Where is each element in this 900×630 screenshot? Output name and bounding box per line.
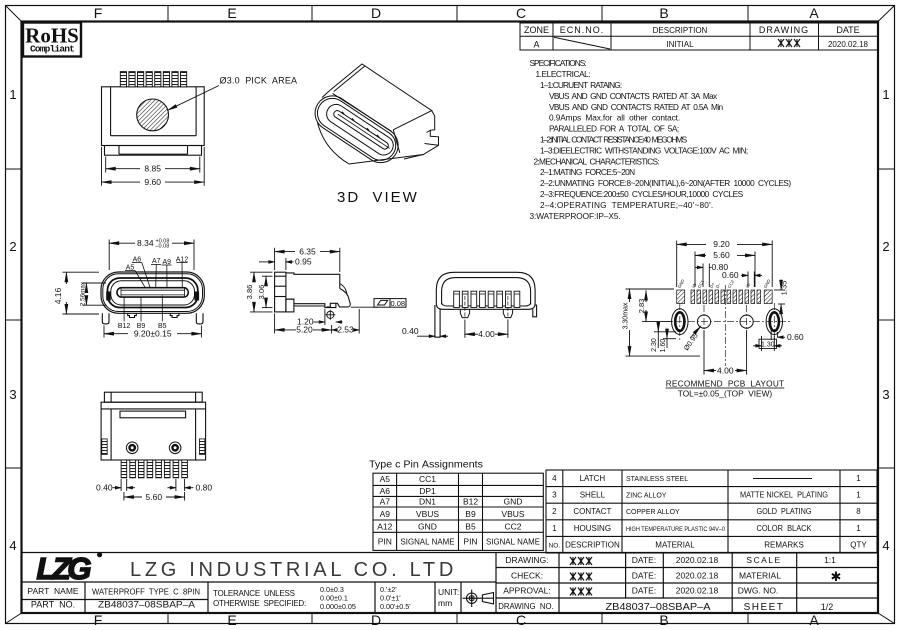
svg-text:A9: A9 — [380, 509, 391, 519]
zone tick marks left — [6, 169, 22, 468]
svg-text:D: D — [371, 5, 381, 21]
svg-text:QTY: QTY — [850, 540, 867, 549]
3d right face — [404, 111, 439, 159]
svg-text:ZINC ALLOY: ZINC ALLOY — [626, 493, 667, 500]
svg-text:HOUSING: HOUSING — [574, 524, 611, 533]
svg-text:3: 3 — [552, 491, 557, 500]
dim 4.00 back — [465, 320, 508, 338]
svg-text:2–2:UNMATING FORCE:8~20N(INIT: 2–2:UNMATING FORCE:8~20N(INITIAL),6~20N(… — [540, 178, 791, 188]
right block rows — [496, 567, 878, 569]
svg-text:8.34: 8.34 — [137, 238, 154, 248]
svg-text:CC1: CC1 — [419, 474, 436, 484]
position symbol — [325, 310, 335, 320]
svg-text:CHECK:: CHECK: — [511, 571, 543, 581]
svg-text:0.00'±0.5': 0.00'±0.5' — [380, 602, 411, 611]
svg-text:COPPER ALLOY: COPPER ALLOY — [626, 509, 680, 516]
svg-text:RECOMMEND PCB LAYOUT: RECOMMEND PCB LAYOUT — [666, 379, 785, 389]
specifications text — [530, 58, 792, 221]
svg-text:Compliant: Compliant — [30, 44, 74, 55]
svg-text:4.00: 4.00 — [478, 329, 495, 339]
svg-text:INITIAL: INITIAL — [666, 40, 694, 49]
side smt lead — [294, 303, 336, 307]
svg-text:1: 1 — [882, 87, 889, 102]
svg-text:1.60: 1.60 — [660, 339, 667, 353]
dim 4.00 pcb — [704, 330, 747, 375]
svg-text:DP1: DP1 — [419, 486, 436, 496]
front legs — [102, 313, 203, 324]
svg-text:DRAWING: DRAWING — [759, 25, 809, 35]
svg-text:5.20: 5.20 — [296, 325, 313, 335]
top view pins — [120, 72, 186, 87]
svg-text:–0.08: –0.08 — [156, 244, 170, 250]
svg-text:CC1: CC1 — [697, 279, 706, 289]
svg-text:2: 2 — [882, 239, 889, 254]
svg-text:A: A — [533, 40, 539, 50]
bottom view pins — [121, 460, 187, 478]
third angle projection symbol — [463, 590, 495, 608]
svg-text:E: E — [227, 612, 236, 628]
bottom view screw bosses — [126, 442, 181, 454]
3d body bottom edge — [349, 155, 423, 165]
dim 3.30max pcb — [626, 289, 701, 356]
svg-text:A5: A5 — [380, 474, 391, 484]
svg-text:2020.02.18: 2020.02.18 — [676, 571, 719, 581]
svg-text:DRAWING NO.: DRAWING NO. — [498, 602, 554, 611]
title block outline — [22, 553, 879, 614]
3d bottom skirt — [318, 123, 350, 165]
svg-text:NO.: NO. — [549, 542, 561, 549]
svg-text:Ø0.95: Ø0.95 — [683, 332, 700, 352]
svg-text:2020.02.18: 2020.02.18 — [676, 555, 719, 565]
svg-text:DATE:: DATE: — [632, 555, 656, 565]
svg-text:3.30max: 3.30max — [622, 302, 629, 329]
svg-text:ZB48037–08SBAP–A: ZB48037–08SBAP–A — [98, 600, 195, 610]
pin callouts bottom — [118, 323, 167, 330]
svg-text:D–: D– — [715, 281, 722, 289]
svg-text:2.83: 2.83 — [637, 299, 646, 314]
svg-text:1: 1 — [856, 491, 861, 500]
svg-text:DATE:: DATE: — [632, 571, 656, 581]
flatness datum box — [374, 299, 406, 308]
pick area leader — [168, 86, 220, 111]
svg-text:A12: A12 — [377, 521, 392, 531]
bottom view body — [101, 402, 206, 460]
svg-text:GND: GND — [763, 278, 772, 289]
dim phi0.95 pcb — [690, 326, 701, 338]
svg-text:GND: GND — [418, 521, 437, 531]
svg-text:PIN: PIN — [463, 537, 477, 547]
pick area circle — [137, 99, 169, 131]
svg-text:GOLD PLATING: GOLD PLATING — [757, 506, 812, 516]
revision table — [520, 23, 878, 50]
svg-text:OTHERWISE SPECIFIED:: OTHERWISE SPECIFIED: — [213, 599, 306, 608]
svg-text:LZG: LZG — [37, 551, 92, 586]
side shell front — [275, 272, 286, 312]
svg-text:3.86: 3.86 — [245, 285, 254, 300]
svg-text:4.16: 4.16 — [53, 287, 63, 304]
dim 2.30 1.60 pcb — [654, 323, 676, 349]
dim 4.16 — [63, 272, 100, 314]
svg-text:1–1:CURUENT RATAING:: 1–1:CURUENT RATAING: — [540, 80, 622, 90]
svg-text:9.20±0.15: 9.20±0.15 — [134, 329, 172, 339]
svg-text:REMARKS: REMARKS — [764, 540, 804, 549]
svg-text:LATCH: LATCH — [580, 474, 606, 483]
corner diagonal top-right — [878, 6, 895, 22]
svg-text:GND: GND — [677, 278, 686, 289]
zone tick marks top — [168, 6, 748, 22]
3d right face front edge — [393, 130, 400, 153]
svg-text:1: 1 — [9, 87, 16, 102]
svg-text:HIGH TEMPERATURE PLASTIC 94V–0: HIGH TEMPERATURE PLASTIC 94V–0 — [626, 526, 725, 533]
svg-text:E: E — [227, 5, 236, 21]
corner diagonal bottom-right — [878, 613, 895, 624]
svg-text:MATERIAL: MATERIAL — [739, 571, 781, 581]
svg-text:Ø3.0 PICK AREA: Ø3.0 PICK AREA — [220, 76, 298, 86]
dim 5.60 bottom — [124, 492, 185, 501]
back pins — [454, 291, 520, 307]
svg-text:2020.02.18: 2020.02.18 — [676, 586, 719, 596]
zone numbers left — [9, 87, 16, 553]
svg-text:F: F — [94, 5, 103, 21]
svg-text:TOLERANCE UNLESS: TOLERANCE UNLESS — [213, 589, 295, 598]
svg-text:LZG INDUSTRIAL CO. LTD: LZG INDUSTRIAL CO. LTD — [130, 559, 457, 581]
ecn diagonal — [554, 37, 610, 49]
svg-text:2:MECHANICAL CHARACTERISTICS:: 2:MECHANICAL CHARACTERISTICS: — [534, 156, 660, 166]
svg-text:TOL=±0.05_(TOP VIEW): TOL=±0.05_(TOP VIEW) — [678, 388, 773, 398]
svg-text:2: 2 — [9, 239, 16, 254]
svg-text:D: D — [371, 612, 381, 628]
title block right text — [498, 555, 841, 613]
svg-text:DWG. NO.: DWG. NO. — [738, 586, 779, 596]
dim 8.34 — [109, 240, 194, 271]
svg-text:VBUS: VBUS — [501, 509, 524, 519]
svg-text:3: 3 — [9, 387, 16, 402]
dim 0.60 pcb right — [771, 330, 785, 340]
svg-text:GND: GND — [504, 497, 523, 507]
svg-text:VBUS AND GND CONTACTS RATE: VBUS AND GND CONTACTS RATED AT 3A Max — [549, 91, 718, 101]
svg-text:5.60: 5.60 — [713, 250, 730, 260]
svg-text:4: 4 — [9, 538, 16, 553]
svg-text:B: B — [659, 612, 668, 628]
RoHS compliant logo box — [23, 23, 81, 57]
pcb holes — [697, 315, 753, 328]
dim 1.35 pcb — [774, 280, 785, 313]
svg-text:0.08: 0.08 — [390, 299, 405, 308]
tongue — [117, 288, 188, 297]
dim 2.83 pcb — [642, 291, 672, 322]
svg-text:UNIT:: UNIT: — [438, 587, 459, 597]
svg-text:B9: B9 — [465, 509, 476, 519]
svg-text:A: A — [809, 612, 819, 628]
svg-text:6.35: 6.35 — [299, 246, 316, 256]
svg-text:1.30: 1.30 — [761, 341, 775, 348]
svg-text:DATE: DATE — [836, 25, 859, 35]
svg-text:B5: B5 — [465, 521, 476, 531]
svg-text:0.000±0.05: 0.000±0.05 — [320, 602, 356, 611]
back feet — [460, 296, 512, 318]
svg-text:0.9Amps Max.for all other: 0.9Amps Max.for all other contact. — [549, 113, 680, 123]
svg-text:2.53: 2.53 — [337, 325, 354, 335]
zone letters top — [94, 5, 820, 21]
svg-text:C: C — [516, 5, 526, 21]
svg-text:DATE:: DATE: — [632, 586, 656, 596]
back shell outer — [436, 272, 535, 303]
BOM latch remark dash — [753, 478, 812, 480]
pcb centerlines — [662, 285, 792, 366]
unit cell — [438, 587, 459, 608]
svg-text:ECN.NO.: ECN.NO. — [560, 25, 605, 35]
svg-text:DN1: DN1 — [419, 497, 436, 507]
svg-text:4: 4 — [552, 474, 557, 483]
corner diagonal bottom-left — [6, 613, 22, 624]
svg-text:VBUS: VBUS — [416, 509, 439, 519]
svg-text:4: 4 — [882, 538, 889, 553]
svg-text:1.ELECTRICAL:: 1.ELECTRICAL: — [536, 69, 591, 79]
svg-text:C: C — [516, 612, 526, 628]
svg-text:2: 2 — [552, 507, 557, 516]
svg-text:DRAWING:: DRAWING: — [505, 555, 548, 565]
svg-text:✱: ✱ — [831, 569, 842, 584]
svg-text:2.56max: 2.56max — [80, 281, 87, 306]
top view body — [102, 87, 205, 146]
pcb oval pads — [672, 309, 783, 335]
zone tick marks bottom — [168, 613, 748, 624]
svg-text:CONTACT: CONTACT — [573, 507, 611, 516]
svg-text:0.60: 0.60 — [787, 332, 804, 342]
svg-text:SHEET: SHEET — [744, 602, 785, 613]
back left leg — [435, 305, 440, 337]
bottom view top flange — [104, 392, 202, 402]
svg-text:1: 1 — [856, 474, 861, 483]
3d top face — [331, 64, 432, 130]
dim 9.20 — [104, 326, 201, 338]
svg-text:1:1: 1:1 — [824, 555, 836, 565]
BOM table grid — [546, 470, 877, 553]
dim 0.40 back — [417, 335, 448, 337]
svg-text:MATTE NICKEL PLATING: MATTE NICKEL PLATING — [740, 490, 828, 500]
svg-text:Type c Pin Assignments: Type c Pin Assignments — [369, 459, 483, 471]
svg-text:0.40: 0.40 — [96, 482, 113, 492]
svg-text:DESCRIPTION: DESCRIPTION — [565, 540, 620, 549]
pin assignment table grid — [373, 473, 543, 550]
seal ring — [108, 278, 198, 308]
svg-text:2–3:FREQUENCE:200±50 CYCLES/H: 2–3:FREQUENCE:200±50 CYCLES/HOUR,10000 C… — [540, 189, 744, 199]
dim 9.60 — [102, 147, 205, 186]
svg-text:0.40: 0.40 — [402, 326, 419, 336]
back bottom skirt — [436, 304, 535, 310]
svg-text:0.80: 0.80 — [196, 482, 213, 492]
svg-text:WATERPROFF TYPE C 8PIN: WATERPROFF TYPE C 8PIN — [92, 587, 200, 597]
latch dimples — [106, 292, 111, 301]
svg-text:COLOR BLACK: COLOR BLACK — [757, 523, 812, 533]
zone letters bottom — [94, 612, 820, 628]
mount posts — [128, 313, 137, 317]
left: banner/partname rows — [22, 581, 497, 583]
svg-text:1.35: 1.35 — [779, 281, 788, 296]
dim 3.06 — [262, 276, 273, 307]
svg-text:3:WATERPROOF:IP–X5.: 3:WATERPROOF:IP–X5. — [530, 211, 621, 221]
top view flange — [105, 146, 202, 156]
dim 0.40 bottom — [113, 479, 136, 491]
svg-text:PART NAME: PART NAME — [27, 586, 78, 596]
svg-text:B12: B12 — [463, 497, 478, 507]
svg-text:4.00: 4.00 — [717, 365, 734, 375]
tolerance values — [320, 585, 411, 611]
svg-text:1–3:DIEELECTRIC WITHSTANDING: 1–3:DIEELECTRIC WITHSTANDING VOLTAGE:100… — [540, 145, 748, 155]
svg-text:0.60: 0.60 — [722, 270, 739, 280]
LZG logo — [37, 551, 103, 586]
back shell inner — [442, 278, 531, 305]
dim 8.85 — [106, 157, 200, 173]
BOM table text — [549, 474, 868, 549]
opening — [111, 281, 195, 305]
bottom view slot — [120, 411, 186, 418]
pin callouts top — [126, 256, 189, 271]
side gauge line — [351, 306, 378, 308]
dim 0.95 — [259, 258, 294, 270]
dim 3.86 — [250, 272, 273, 312]
svg-text:SIGNAL NAME: SIGNAL NAME — [401, 537, 455, 547]
svg-text:SCALE: SCALE — [746, 555, 781, 565]
svg-text:1: 1 — [856, 524, 861, 533]
pin assignment table text — [377, 474, 540, 547]
svg-text:PART NO.: PART NO. — [31, 600, 75, 610]
svg-text:ZONE: ZONE — [524, 25, 549, 35]
dim 1.20 — [314, 309, 343, 325]
svg-text:SIGNAL NAME: SIGNAL NAME — [486, 537, 540, 547]
dim 6.35 — [275, 248, 340, 272]
svg-text:STAINLESS STEEL: STAINLESS STEEL — [626, 476, 688, 483]
svg-text:SPECIFICATIONS:: SPECIFICATIONS: — [530, 58, 587, 68]
svg-text:3.06: 3.06 — [257, 285, 266, 300]
dim 5.20 / 2.53 — [275, 309, 360, 334]
svg-text:9.20: 9.20 — [713, 239, 730, 249]
svg-text:SHELL: SHELL — [580, 491, 606, 500]
dim 5.60 pcb — [695, 252, 755, 288]
svg-text:2–1:MATING FORCE:5~20N: 2–1:MATING FORCE:5~20N — [540, 167, 635, 177]
drawing name stamp (CJK) — [778, 39, 800, 47]
dim 2.56max — [83, 283, 107, 305]
back right tab — [533, 305, 537, 317]
svg-text:A: A — [809, 5, 819, 21]
svg-text:2020.02.18: 2020.02.18 — [828, 40, 869, 49]
svg-text:3D VIEW: 3D VIEW — [337, 189, 419, 206]
svg-text:A7: A7 — [380, 497, 391, 507]
svg-text:DESCRIPTION: DESCRIPTION — [653, 26, 708, 35]
svg-text:mm: mm — [438, 598, 452, 608]
svg-text:1: 1 — [552, 524, 557, 533]
svg-text:VBUS AND GND CONTACTS RATE: VBUS AND GND CONTACTS RATED AT 0.5A Min — [549, 102, 724, 112]
svg-text:0.95: 0.95 — [295, 257, 312, 267]
svg-text:8.85: 8.85 — [144, 164, 161, 174]
part name row — [27, 586, 306, 610]
dim 0.60 pcb — [741, 272, 762, 288]
zone tick marks right — [878, 169, 895, 468]
svg-text:3: 3 — [882, 387, 889, 402]
svg-text:1–2:INITIAL CONTACT RESISTAN: 1–2:INITIAL CONTACT RESISTANCE:40 MEGOHM… — [540, 135, 688, 145]
side rear holddown tab — [327, 289, 351, 307]
pcb pad labels — [677, 278, 772, 289]
svg-text:8: 8 — [856, 507, 861, 516]
svg-text:ZB48037–08SBAP–A: ZB48037–08SBAP–A — [606, 602, 711, 613]
svg-text:B12: B12 — [118, 323, 131, 330]
side foot block — [286, 298, 294, 300]
3d top face chamfer lines — [334, 66, 365, 92]
svg-text:A6: A6 — [380, 486, 391, 496]
svg-text:2–4:OPERATING TEMPERATURE;–40: 2–4:OPERATING TEMPERATURE;–40'~80'. — [540, 200, 713, 210]
svg-text:1/2: 1/2 — [821, 602, 834, 612]
svg-text:9.60: 9.60 — [144, 177, 161, 187]
corner diagonal top-left — [6, 6, 22, 22]
dim 9.20 pcb — [677, 241, 773, 288]
svg-text:B: B — [659, 5, 668, 21]
svg-text:APPROVAL:: APPROVAL: — [503, 586, 551, 596]
check stamp (CJK) — [570, 557, 592, 596]
dim 0.80 bottom — [168, 479, 194, 491]
svg-text:CC2: CC2 — [727, 279, 736, 289]
svg-text:2.30: 2.30 — [651, 338, 658, 352]
svg-text:PIN: PIN — [378, 537, 392, 547]
3d front rim rings — [308, 89, 404, 169]
svg-text:F: F — [94, 612, 103, 628]
bottom view side clips — [102, 439, 205, 455]
shell outer — [101, 272, 204, 313]
svg-text:5.60: 5.60 — [146, 492, 163, 502]
dim 0.80 pcb — [695, 264, 712, 288]
side body top — [286, 273, 340, 289]
zone numbers right — [882, 87, 889, 553]
svg-text:PARALLELED FOR A TOTAL OF: PARALLELED FOR A TOTAL OF 5A; — [549, 124, 679, 134]
dim 1.30 pcb (basic) — [753, 336, 782, 351]
svg-text:CC2: CC2 — [504, 521, 521, 531]
svg-text:MATERIAL: MATERIAL — [655, 540, 695, 549]
pcb pads row — [677, 290, 773, 304]
